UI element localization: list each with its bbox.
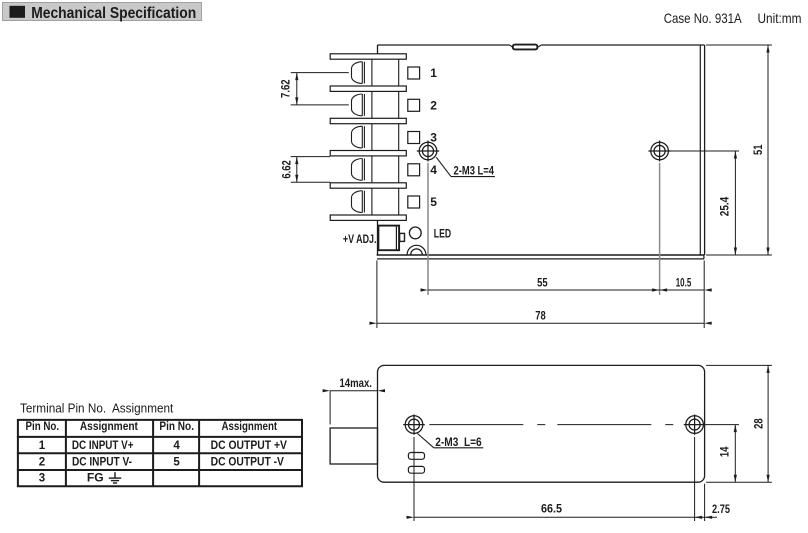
svg-text:5: 5 [430, 195, 437, 209]
svg-text:66.5: 66.5 [541, 502, 562, 516]
case right edge (double wall) [699, 45, 701, 255]
svg-text:Pin No.: Pin No. [26, 421, 60, 433]
svg-text:51: 51 [751, 144, 765, 155]
svg-text:DC OUTPUT +V: DC OUTPUT +V [211, 440, 288, 452]
section header bar [3, 3, 202, 21]
mounting hole M3 right [651, 142, 669, 160]
side mounting hole right [686, 416, 704, 434]
dimension 51 right side [706, 44, 772, 46]
svg-text:Assignment: Assignment [221, 421, 277, 433]
side mounting hole left [405, 416, 423, 434]
svg-text:DC INPUT V+: DC INPUT V+ [72, 440, 134, 452]
svg-text:Unit:mm: Unit:mm [758, 10, 802, 26]
case left edge segments [377, 45, 379, 54]
terminal bar 1 [330, 54, 406, 59]
pin square 5 [408, 196, 420, 208]
terminal bar 2 [330, 86, 406, 91]
dimension 10.5 [660, 289, 705, 291]
dimension 14max. [330, 390, 377, 392]
svg-text:1: 1 [430, 66, 437, 80]
side view center dashed line [429, 424, 685, 426]
svg-text:+V ADJ.: +V ADJ. [343, 232, 377, 246]
svg-text:55: 55 [537, 275, 548, 289]
svg-text:Case No. 931A: Case No. 931A [664, 10, 743, 26]
svg-text:LED: LED [434, 226, 452, 240]
svg-text:DC OUTPUT -V: DC OUTPUT -V [211, 456, 285, 468]
screw at y=72.6 [352, 62, 363, 84]
dimension 7.62 [291, 72, 349, 74]
svg-text:2: 2 [430, 99, 437, 113]
svg-text:Assignment: Assignment [80, 421, 138, 433]
case top edge with tab notch [378, 44, 510, 46]
svg-text:Pin No.: Pin No. [159, 421, 194, 433]
dimension 2.75 [704, 484, 706, 521]
header black square bullet [10, 6, 26, 18]
side view body [378, 365, 705, 482]
dimension 78 [376, 260, 378, 328]
dimension 14 [706, 424, 740, 426]
terminal block body rails [371, 54, 373, 221]
leader 2-M3 L=6 [418, 434, 434, 448]
dimension 25.4 [669, 150, 739, 152]
screw at y=201.6 [352, 191, 363, 213]
ground symbol [114, 472, 116, 478]
mounting hole M3 left [419, 142, 437, 160]
dimension 6.62 [291, 156, 330, 158]
svg-text:14max.: 14max. [339, 376, 372, 390]
svg-text:4: 4 [173, 440, 180, 452]
svg-text:28: 28 [752, 418, 766, 429]
svg-text:7.62: 7.62 [278, 79, 292, 98]
svg-text:14: 14 [718, 446, 732, 457]
bottom center hole (half circles) [407, 245, 426, 254]
svg-text:FG: FG [87, 473, 104, 485]
pin square 1 [408, 67, 420, 79]
terminal bar 6 [330, 215, 406, 220]
svg-text:25.4: 25.4 [718, 196, 732, 216]
svg-text:2: 2 [39, 456, 45, 468]
svg-text:78: 78 [535, 308, 546, 322]
terminal bar 5 [330, 183, 406, 188]
svg-text:2-M3 L=6: 2-M3 L=6 [435, 435, 482, 449]
terminal bar 4 [330, 151, 406, 156]
svg-text:2-M3 L=4: 2-M3 L=4 [454, 164, 495, 178]
svg-text:4: 4 [430, 163, 437, 177]
case bottom edge (double) [377, 254, 705, 256]
svg-text:6.62: 6.62 [279, 160, 293, 179]
pot nub [400, 233, 405, 241]
dimension 66.5 [413, 437, 415, 521]
screw at y=104.9 [352, 94, 363, 116]
terminal bar 3 [330, 118, 406, 123]
svg-text:10.5: 10.5 [676, 275, 692, 289]
leader 2-M3 L=4 [436, 157, 451, 176]
potentiometer +V ADJ. [378, 226, 399, 251]
pin square 3 [408, 132, 420, 144]
svg-text:5: 5 [173, 456, 180, 468]
table grid [17, 419, 303, 421]
svg-text:1: 1 [39, 440, 46, 452]
top cover tab [513, 45, 538, 50]
side vent slots [408, 453, 424, 460]
dimension 28 [706, 364, 772, 366]
svg-text:DC INPUT V-: DC INPUT V- [72, 456, 132, 468]
screw at y=137.1 [352, 126, 363, 148]
LED circle [409, 227, 421, 239]
screw at y=169.4 [352, 159, 363, 181]
svg-text:Mechanical Specification: Mechanical Specification [31, 5, 196, 22]
pin square 2 [408, 99, 420, 111]
svg-text:Terminal Pin No. Assignment: Terminal Pin No. Assignment [20, 402, 174, 416]
extension lines from holes down to dimension 55 [427, 163, 429, 295]
svg-text:2.75: 2.75 [712, 502, 730, 516]
pin square 4 [408, 164, 420, 176]
side view terminal block protrusion [330, 428, 377, 464]
svg-text:3: 3 [39, 473, 45, 485]
dimension 55 [428, 289, 660, 291]
